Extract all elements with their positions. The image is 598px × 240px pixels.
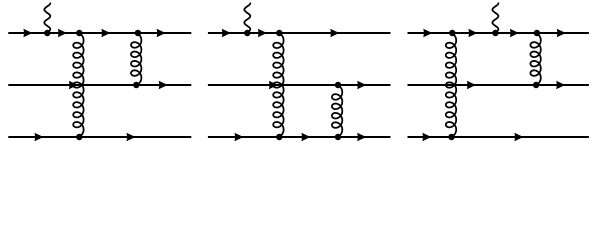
D3 middle fermion line [408, 84, 589, 86]
D1 vertex dot [76, 134, 83, 141]
D2 arrow on top line [330, 29, 339, 38]
D1 arrow on bottom line [35, 133, 44, 142]
D2 photon wavy line [244, 3, 250, 33]
D2 arrow on middle line [357, 81, 366, 90]
D3 arrow on middle line [467, 81, 476, 90]
D1 gluon 2 [131, 33, 141, 85]
D3 gluon 2 [530, 33, 540, 85]
D3 vertex dot [533, 82, 540, 89]
D3 bottom fermion line [408, 136, 589, 138]
D1 vertex dot [44, 30, 51, 37]
D3 arrow on top line [468, 29, 477, 38]
D2 vertex dot [276, 134, 283, 141]
D2 vertex dot [276, 30, 283, 37]
D1 arrow on top line [58, 29, 67, 38]
D3 vertex dot [534, 30, 541, 37]
D2 arrow on middle line [269, 81, 278, 90]
D1 gluon 1 [73, 33, 83, 137]
D1 arrow on top line [157, 29, 166, 38]
D1 top fermion line [8, 32, 191, 34]
D2 arrow on bottom line [357, 133, 366, 142]
D2 top fermion line [208, 32, 391, 34]
D2 arrow on top line [258, 29, 267, 38]
D1 arrow on top line [23, 29, 32, 38]
D1 middle fermion line [8, 84, 191, 86]
D1 arrow on middle line [69, 81, 78, 90]
D3 arrow on top line [423, 29, 432, 38]
D2 arrow on top line [222, 29, 231, 38]
D1 vertex dot [133, 82, 140, 89]
D2 vertex dot [335, 134, 342, 141]
D3 vertex dot [492, 30, 499, 37]
D3 top fermion line [408, 32, 589, 34]
D3 vertex dot [449, 30, 456, 37]
D3 arrow on middle line [556, 81, 565, 90]
D2 gluon 1 [273, 33, 283, 137]
D3 arrow on bottom line [422, 133, 431, 142]
D1 arrow on top line [101, 29, 110, 38]
D2 bottom fermion line [208, 136, 391, 138]
D2 vertex dot [244, 30, 251, 37]
D3 gluon 1 [446, 33, 456, 137]
D2 vertex dot [335, 82, 342, 89]
D1 vertex dot [76, 30, 83, 37]
D2 arrow on bottom line [235, 133, 244, 142]
D3 arrow on top line [557, 29, 566, 38]
D1 bottom fermion line [8, 136, 191, 138]
D3 arrow on top line [510, 29, 519, 38]
D1 vertex dot [135, 30, 142, 37]
D1 arrow on bottom line [127, 133, 136, 142]
D3 vertex dot [448, 134, 455, 141]
D2 arrow on bottom line [301, 133, 310, 142]
D2 middle fermion line [208, 84, 391, 86]
D3 arrow on bottom line [514, 133, 523, 142]
D2 gluon 2 [332, 85, 342, 137]
D1 photon wavy line [44, 3, 50, 33]
D3 photon wavy line [492, 3, 498, 33]
D1 arrow on middle line [159, 81, 168, 90]
